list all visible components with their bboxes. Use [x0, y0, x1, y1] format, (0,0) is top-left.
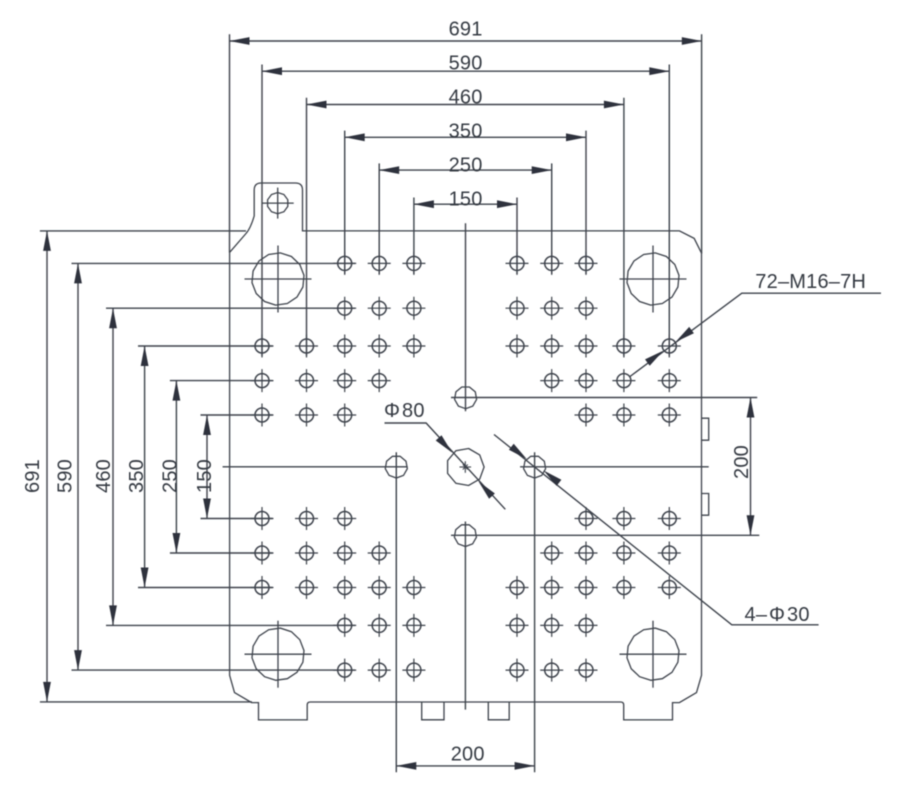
left dimension 350	[126, 346, 149, 588]
top dimension 150	[414, 189, 517, 211]
central sprue hole Phi80 with center mark	[448, 449, 485, 486]
vertical extension line 150 left	[413, 198, 415, 275]
svg-text:460: 460	[93, 459, 115, 493]
svg-text:350: 350	[126, 459, 148, 493]
svg-text:72–M16–7H: 72–M16–7H	[755, 271, 866, 293]
vertical extension line 350 right	[585, 131, 587, 274]
top dimension 460	[307, 86, 624, 108]
M16 tapped hole group bottom-right quadrant (18 holes)	[506, 507, 681, 682]
bottom ejector tab left	[422, 702, 444, 720]
left dimension 691	[22, 231, 51, 702]
vertical extension line 250 left	[378, 163, 380, 274]
right edge tab upper	[702, 418, 709, 440]
vertical extension line 460 right	[623, 98, 625, 356]
M16 tapped hole group bottom-left quadrant (18 holes)	[251, 507, 426, 682]
right edge tab lower	[702, 494, 709, 516]
M16 tapped hole group top-left quadrant (18 holes)	[251, 252, 426, 427]
top dimension 691	[230, 18, 702, 45]
svg-text:Φ 80: Φ 80	[384, 400, 425, 422]
svg-text:250: 250	[159, 459, 181, 493]
horizontal extension line 460 bottom	[106, 624, 355, 626]
horizontal extension line 590 top	[72, 262, 356, 264]
left dimension 590	[55, 263, 82, 670]
extension line top Phi30 hole to right 200 dim	[451, 397, 757, 399]
leader and label 72-M16-7H	[630, 271, 881, 377]
top dimension 350	[345, 121, 586, 143]
vertical extension line 590 right	[668, 65, 670, 357]
vertical extension line 250 right	[551, 163, 553, 274]
svg-text:150: 150	[449, 189, 483, 211]
tie-bar hole bottom-right	[620, 621, 687, 688]
vertical extension line 691 left	[229, 34, 231, 252]
top dimension 250	[379, 154, 552, 176]
extension line left Phi30 hole down to bottom 200 dim	[395, 452, 397, 772]
Phi30 locating hole right	[524, 456, 546, 478]
tie-bar hole top-right	[620, 246, 687, 313]
svg-text:250: 250	[449, 154, 483, 176]
leader and label 4-Phi30	[494, 435, 819, 626]
horizontal extension line 150 bottom	[201, 518, 273, 520]
lifting lug hole	[262, 188, 294, 219]
right dimension 200	[731, 398, 754, 536]
vertical extension line 150 right	[516, 198, 518, 275]
horizontal extension line 250 bottom	[170, 552, 273, 554]
Phi30 locating hole left	[385, 456, 407, 478]
top dimension 590	[262, 52, 669, 75]
bottom dimension 200	[396, 743, 534, 769]
left dimension 460	[93, 308, 117, 625]
svg-text:4– Φ 30: 4– Φ 30	[745, 604, 810, 626]
left dimension 250	[159, 381, 181, 553]
horizontal centerline from right Phi30 hole to right edge	[520, 466, 709, 468]
vertical centerline through bottom Phi30 hole to below plate	[464, 522, 466, 710]
horizontal centerline through left Phi30 hole	[223, 466, 408, 468]
platen plate outline with lifting lug and corner feet	[230, 183, 702, 720]
M16 tapped hole group top-right quadrant (18 holes)	[506, 252, 681, 427]
Phi30 locating hole bottom	[454, 525, 476, 547]
svg-text:200: 200	[451, 743, 485, 765]
svg-text:150: 150	[194, 459, 216, 493]
svg-text:691: 691	[449, 18, 483, 40]
vertical extension line 350 left	[344, 131, 346, 274]
vertical extension line 691 right	[701, 34, 703, 253]
horizontal extension line 691 bottom	[40, 701, 252, 703]
svg-text:691: 691	[22, 459, 44, 493]
svg-text:350: 350	[449, 121, 483, 143]
horizontal extension line 590 bottom	[72, 669, 356, 671]
tie-bar hole top-left	[245, 246, 312, 313]
horizontal extension line 150 top	[201, 414, 273, 416]
svg-text:200: 200	[731, 445, 753, 479]
horizontal extension line 350 top	[138, 345, 273, 347]
leader and label Phi80	[384, 400, 505, 509]
vertical centerline through top Phi30 hole	[465, 223, 467, 411]
horizontal extension line 691 top	[40, 230, 246, 232]
horizontal extension line 350 bottom	[138, 587, 273, 589]
svg-text:590: 590	[449, 52, 483, 74]
tie-bar hole bottom-left	[245, 621, 312, 688]
vertical extension line 460 left	[306, 98, 308, 356]
bottom ejector tab right	[488, 702, 509, 720]
extension line bottom Phi30 hole to right 200 dim	[451, 534, 759, 536]
svg-text:460: 460	[449, 86, 483, 108]
horizontal extension line 250 top	[170, 380, 273, 382]
vertical extension line 590 left	[261, 65, 263, 357]
Phi30 locating hole top	[455, 387, 477, 409]
horizontal extension line 460 top	[106, 307, 355, 309]
svg-text:590: 590	[55, 459, 77, 493]
left dimension 150	[194, 415, 216, 519]
extension line right Phi30 hole down to bottom 200 dim	[534, 452, 536, 772]
